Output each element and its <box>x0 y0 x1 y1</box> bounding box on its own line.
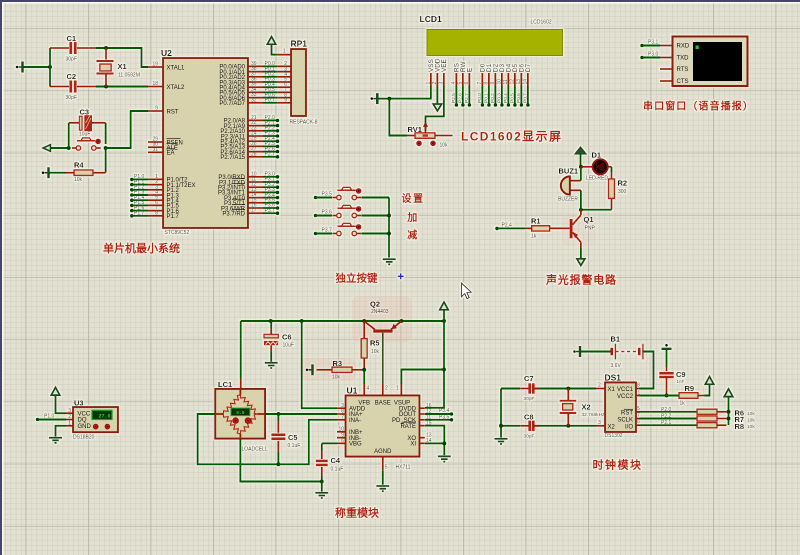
wire gnd to battery <box>580 351 611 353</box>
wire VSS to ground <box>389 86 431 99</box>
ground terminal (arrow) Q1 emitter <box>577 259 585 266</box>
capacitor C8 30pF <box>501 421 540 432</box>
svg-text:EA: EA <box>167 151 175 157</box>
svg-text:CTS: CTS <box>677 79 689 85</box>
pin 28 P2.7/A15 + net P2.7 <box>248 155 279 159</box>
ground GND-C4 <box>315 493 328 498</box>
wire C2 to XTAL2 <box>96 86 148 88</box>
svg-text:P2.1: P2.1 <box>661 420 672 426</box>
svg-text:11: 11 <box>503 79 509 84</box>
pin 3 X2 stub <box>596 420 605 426</box>
wire LC1 bottom pin to C4 gnd node <box>240 439 321 482</box>
svg-text:减: 减 <box>407 229 417 242</box>
svg-text:P3.6: P3.6 <box>322 210 333 216</box>
svg-text:10k: 10k <box>371 349 380 355</box>
wire+net P0.5 under LCD pin D5 <box>510 86 517 107</box>
svg-text:VBG: VBG <box>349 442 362 448</box>
svg-text:P0.1: P0.1 <box>484 93 490 103</box>
pin 26 P2.5/A13 + net P2.5 <box>248 145 279 149</box>
svg-text:30pF: 30pF <box>524 396 535 402</box>
wire AVDD from rail <box>302 321 337 408</box>
wire gnd stub <box>377 98 389 100</box>
svg-text:R4: R4 <box>74 161 84 170</box>
wire+net P0.6 under LCD pin D6 <box>516 86 523 107</box>
svg-text:RP1: RP1 <box>291 39 308 49</box>
svg-text:32.768kHz: 32.768kHz <box>582 412 606 418</box>
svg-text:P2.7: P2.7 <box>265 152 276 158</box>
wire+net P3.7 to button 3 <box>314 228 332 236</box>
wire GND pin to ground <box>56 426 67 437</box>
pin 10 D3 of LCD1 <box>497 63 506 86</box>
pin 5 RW of LCD1 <box>458 61 467 86</box>
node R7 pullup <box>727 417 731 421</box>
pin 8 P1.7 + net P1.7 <box>130 214 163 218</box>
ground GND-C7C8 <box>495 439 508 444</box>
svg-text:DQ: DQ <box>78 418 87 424</box>
node reset right <box>104 146 108 150</box>
svg-text:10k: 10k <box>440 143 449 149</box>
capacitor C2 <box>50 81 96 93</box>
svg-text:HX711: HX711 <box>396 465 411 471</box>
pushbutton KEY1 (P3.5) <box>332 187 361 200</box>
resistor R2 300 <box>609 173 615 210</box>
resistor R8 10k <box>697 423 727 428</box>
svg-text:3: 3 <box>598 420 601 426</box>
svg-text:300: 300 <box>618 189 627 195</box>
svg-text:C2: C2 <box>67 72 77 81</box>
svg-text:P0.7/AD7: P0.7/AD7 <box>219 101 245 107</box>
node LCD gnd junction <box>387 97 391 101</box>
pin 1 VCC2 stub + wire to R9 <box>636 390 679 396</box>
pin RXD of terminal <box>660 44 690 50</box>
pin 34 P0.5/AD5 + net P0.5 wire to RP1 <box>248 91 291 93</box>
node bus-b3 <box>387 232 391 236</box>
svg-text:C3: C3 <box>80 108 90 117</box>
svg-text:9: 9 <box>490 82 496 85</box>
transistor Q1 PNP <box>570 210 581 248</box>
svg-text:10k: 10k <box>74 177 83 183</box>
svg-text:P0.7: P0.7 <box>265 98 276 104</box>
svg-text:R8: R8 <box>735 422 745 431</box>
wire+net P0.7 under LCD pin D7 <box>523 86 530 107</box>
svg-text:9: 9 <box>284 98 287 104</box>
svg-text:P3.1: P3.1 <box>648 40 659 46</box>
wire AVDD rail <box>241 320 444 322</box>
resistor R6 10k <box>697 409 727 414</box>
pin 15 P3.5/T1 + net P3.5 <box>248 201 279 205</box>
wire C1-C2 left vertical <box>49 48 51 87</box>
svg-text:VCC2: VCC2 <box>617 394 634 400</box>
svg-text:P1.7: P1.7 <box>134 211 145 217</box>
load cell LC1 LOADCELL <box>215 379 265 439</box>
svg-text:2N4403: 2N4403 <box>371 309 389 315</box>
pin 11 PD_SCK of U1 <box>392 415 431 425</box>
svg-text:32: 32 <box>251 97 257 103</box>
svg-text:31: 31 <box>152 147 158 153</box>
svg-text:E: E <box>467 68 474 72</box>
node X1 bottom <box>104 85 108 89</box>
pin 8 VCC1 stub <box>636 383 640 389</box>
svg-text:1: 1 <box>426 82 432 85</box>
svg-text:DS18B20: DS18B20 <box>73 435 95 441</box>
svg-text:C9: C9 <box>676 370 686 379</box>
capacitor C3 10uF <box>69 115 106 149</box>
svg-text:P0.0: P0.0 <box>477 93 483 103</box>
pin 7 INA- of U1 <box>337 415 361 425</box>
resistor R9 1k <box>679 393 705 399</box>
input terminal arrow (reset net) <box>43 145 51 152</box>
wire C4 junction to ground <box>321 482 323 492</box>
wire VSUP branch <box>401 370 444 385</box>
svg-text:LCD1: LCD1 <box>420 14 442 24</box>
pushbutton KEY3 (P3.7) <box>332 223 361 236</box>
ground GND-AGND <box>376 486 389 491</box>
power VCC arrow RP1 <box>267 37 276 45</box>
pin 10 P3.0/RXD + net P3.0 <box>248 175 279 179</box>
svg-text:P3.0: P3.0 <box>648 52 659 58</box>
svg-text:称重模块: 称重模块 <box>335 506 380 520</box>
pin 22 P2.1/A9 + net P2.1 <box>248 124 279 128</box>
wire+net P0.1 under LCD pin D1 <box>484 86 491 107</box>
svg-text:10k: 10k <box>747 411 755 417</box>
svg-text:DS1: DS1 <box>605 373 622 383</box>
wire LC1 left pin loop to INA- <box>198 414 279 464</box>
pushbutton KEY2 (P3.6) <box>332 205 361 218</box>
svg-text:RST: RST <box>167 109 179 115</box>
pin 12 DOUT of U1 <box>399 409 432 419</box>
svg-text:DS1302: DS1302 <box>605 433 623 439</box>
pin 13 D6 of LCD1 <box>516 63 525 86</box>
ground GND-B1 <box>579 346 582 357</box>
svg-text:2: 2 <box>432 82 438 85</box>
selection glow Q1 <box>562 214 596 246</box>
svg-text:P2.2: P2.2 <box>661 414 672 420</box>
pin 5 AGND stub + ground <box>383 457 388 471</box>
pin 25 P2.4/A12 + net P2.4 <box>248 139 279 143</box>
power VCC arrow weighing <box>440 302 449 310</box>
wire VEE to RV1 wiper <box>426 86 444 131</box>
svg-text:10k: 10k <box>747 418 755 424</box>
svg-text:6: 6 <box>341 438 344 444</box>
pin 1 VSS of LCD1 <box>426 59 435 86</box>
svg-text:XTAL1: XTAL1 <box>167 65 186 71</box>
power VCC arrow U3 <box>51 387 60 395</box>
pin 37 P0.2/AD2 + net P0.2 wire to RP1 <box>248 76 291 78</box>
wire+net P3.0 to terminal TXD <box>640 52 660 60</box>
wire rail to LC1 top <box>240 321 242 379</box>
pin 7 D0 of LCD1 <box>477 63 486 86</box>
pin 3 VEE of LCD1 <box>439 59 448 86</box>
pin 5 P1.4 + net P1.4 <box>130 198 163 202</box>
capacitor C6 10uF (electrolytic) <box>264 321 278 362</box>
pin 7 P1.6 + net P1.6 <box>130 209 163 213</box>
capacitor C7 30pF <box>501 383 540 394</box>
selection glow Q2 <box>352 296 412 342</box>
svg-text:1k: 1k <box>680 401 686 407</box>
pin 2 VDD of LCD1 <box>432 58 441 86</box>
svg-text:P2.4: P2.4 <box>502 222 513 228</box>
svg-text:P3.7: P3.7 <box>265 208 276 214</box>
pin 14 P3.4/T0 + net P3.4 <box>248 196 279 200</box>
svg-text:RESPACK-8: RESPACK-8 <box>290 120 318 126</box>
svg-text:SCLK: SCLK <box>617 417 633 423</box>
node C4 bottom junction <box>320 480 324 484</box>
svg-text:1nF: 1nF <box>677 379 685 384</box>
wire button 1 to bus <box>362 197 390 199</box>
svg-text:LCD1602显示屏: LCD1602显示屏 <box>461 130 562 144</box>
op-amp U2 STC89C52 chip body <box>163 58 248 228</box>
wire LC1 right pin to INA+ <box>265 413 337 415</box>
pin 29 PSEN stub <box>148 141 163 143</box>
svg-text:14: 14 <box>523 79 529 85</box>
svg-text:7: 7 <box>341 415 344 421</box>
svg-text:28: 28 <box>251 151 257 157</box>
node alarm top junction <box>579 165 583 169</box>
svg-text:5: 5 <box>385 465 388 471</box>
node bus-b2 <box>387 214 391 218</box>
svg-text:1: 1 <box>396 386 399 392</box>
svg-text:19: 19 <box>152 62 158 68</box>
blue edit cursor <box>398 273 404 279</box>
capacitor C9 1nF <box>659 349 674 396</box>
pin 3 VCC of U3 <box>66 408 91 418</box>
resistor R3 10k <box>317 367 365 372</box>
pin 5 + wire net P2.0 to R6 <box>636 406 697 413</box>
svg-text:30pF: 30pF <box>524 434 535 440</box>
svg-text:STC89C52: STC89C52 <box>165 230 190 236</box>
node rail-R5/collector <box>362 319 366 323</box>
pin 6 E of LCD1 <box>464 68 473 86</box>
node RATE/XI <box>442 441 446 445</box>
wire power to VCC pin <box>56 395 67 413</box>
svg-text:3: 3 <box>439 82 445 85</box>
svg-text:C1: C1 <box>67 34 77 43</box>
wire VDD to power-down arrow <box>436 86 438 104</box>
svg-text:RTS: RTS <box>677 67 689 73</box>
resistor R4 10k <box>50 148 106 176</box>
svg-text:C5: C5 <box>288 433 298 442</box>
pin 4 P1.3 + net P1.3 <box>130 193 163 197</box>
wire gnd junction down to RV1 <box>389 99 407 136</box>
node rail-power <box>442 319 446 323</box>
wire AGND to ground <box>382 470 384 485</box>
pin 14 XI of U1 <box>410 438 431 448</box>
svg-text:LCD1602: LCD1602 <box>531 20 552 26</box>
wire terminal to button <box>51 147 69 149</box>
svg-text:BASE: BASE <box>375 401 391 407</box>
svg-text:10uF: 10uF <box>283 343 294 349</box>
wire X1 row <box>533 388 596 390</box>
svg-text:RV1: RV1 <box>408 125 422 134</box>
wire+net P3.4 DOUT <box>425 408 454 416</box>
svg-text:P3.7/RD: P3.7/RD <box>222 212 245 218</box>
svg-text:0.1uF: 0.1uF <box>331 467 344 473</box>
svg-text:C4: C4 <box>331 456 341 465</box>
svg-text:3: 3 <box>68 408 71 414</box>
svg-text:加: 加 <box>406 211 417 224</box>
pin 14 D7 of LCD1 <box>523 63 532 86</box>
svg-text:X1: X1 <box>608 387 616 393</box>
svg-text:C8: C8 <box>524 413 534 422</box>
pin 8 D1 of LCD1 <box>484 63 493 86</box>
svg-text:声光报警电路: 声光报警电路 <box>545 273 617 287</box>
svg-text:P1.7: P1.7 <box>167 214 180 220</box>
capacitor C5 0.1uF <box>271 414 285 464</box>
power terminal (alarm) <box>575 147 586 154</box>
wire VBG elbow <box>322 442 337 444</box>
ground GND-LCD <box>376 93 379 104</box>
svg-text:10k: 10k <box>332 375 341 381</box>
svg-text:C6: C6 <box>282 333 292 342</box>
svg-text:P2.7: P2.7 <box>464 93 470 103</box>
svg-text:VCC1: VCC1 <box>617 387 634 393</box>
wire+net P3.6 to button 2 <box>314 210 332 218</box>
node VCC2 junction <box>665 394 669 398</box>
power terminal (down) VDD <box>433 104 442 111</box>
pin 30 ALE stub <box>148 146 163 148</box>
svg-text:Q2: Q2 <box>370 300 380 309</box>
node rail-emitter <box>399 319 403 323</box>
pin 11 P3.1/TXD + net P3.1 <box>248 180 279 184</box>
pin 3 AVDD of U1 <box>337 403 366 413</box>
node reset left <box>67 146 71 150</box>
pin 33 P0.6/AD6 + net P0.6 wire to RP1 <box>248 97 291 99</box>
svg-text:30pF: 30pF <box>66 95 77 101</box>
wire+net P2.6 under LCD pin RW <box>458 86 465 107</box>
svg-text:P2.0: P2.0 <box>661 407 672 413</box>
ground GND-R4 <box>47 167 50 178</box>
svg-text:C7: C7 <box>524 374 534 383</box>
pin 15 RATE of U1 <box>400 420 431 430</box>
svg-text:8: 8 <box>155 210 158 216</box>
pin 2 P1.1/T2EX + net P1.1 <box>130 183 163 187</box>
wire+net P0.4 under LCD pin D4 <box>503 86 510 107</box>
svg-text:2: 2 <box>598 383 601 389</box>
svg-text:1k: 1k <box>531 234 537 240</box>
node rail-AVDD <box>300 319 304 323</box>
svg-text:2: 2 <box>68 414 71 420</box>
LCD display LCD1 <box>427 30 563 56</box>
svg-text:4: 4 <box>367 386 370 392</box>
pin 10 INB+ of U1 <box>337 427 363 437</box>
svg-text:独立按键: 独立按键 <box>335 272 378 285</box>
svg-text:单片机最小系统: 单片机最小系统 <box>103 241 180 255</box>
svg-text:U1: U1 <box>347 386 358 396</box>
pin 24 P2.3/A11 + net P2.3 <box>248 134 279 138</box>
pin 1 GND of U3 <box>66 421 92 431</box>
ground GND-U3 <box>49 438 62 443</box>
svg-text:LC1: LC1 <box>218 380 232 389</box>
svg-text:9: 9 <box>155 106 158 112</box>
mouse cursor <box>462 283 472 299</box>
LED D1 LED-RED <box>581 159 612 174</box>
svg-text:R1: R1 <box>531 217 541 226</box>
wire pullup vertical to power <box>728 397 730 426</box>
node rail-C6 <box>269 319 273 323</box>
svg-text:0.0: 0.0 <box>236 410 245 416</box>
pin 21 P2.0/A8 + net P2.0 <box>248 119 279 123</box>
pin 1 P1.0/T2 + net P1.0 <box>130 178 163 182</box>
wire battery to VCC1 <box>640 352 654 389</box>
svg-text:P3.4: P3.4 <box>439 408 450 414</box>
svg-text:U2: U2 <box>161 48 172 58</box>
svg-text:D7: D7 <box>525 63 532 72</box>
wire R9 to power <box>705 384 710 395</box>
resistor R1 1k <box>525 226 570 231</box>
pin CTS of terminal <box>660 79 689 85</box>
wire X2 row <box>533 425 596 427</box>
svg-text:D1: D1 <box>592 151 602 160</box>
pin 9 D2 of LCD1 <box>490 63 499 86</box>
svg-text:U3: U3 <box>74 399 84 408</box>
pin 6 + wire net P2.1 to R8 <box>636 419 697 426</box>
svg-text:X2: X2 <box>582 403 591 412</box>
pin 16 P3.6/WR + net P3.6 <box>248 206 279 210</box>
svg-text:3.6V: 3.6V <box>611 363 622 369</box>
wire+net P2.7 under LCD pin E <box>464 86 471 107</box>
wire power to LED junction <box>580 154 582 166</box>
svg-text:4: 4 <box>451 82 457 85</box>
svg-text:GND: GND <box>78 424 92 430</box>
svg-text:P0.7: P0.7 <box>523 93 529 103</box>
pin 23 P2.2/A10 + net P2.2 <box>248 129 279 133</box>
pin TXD of terminal <box>660 56 689 62</box>
pin 4 RS of LCD1 <box>451 63 460 86</box>
svg-text:XTAL2: XTAL2 <box>167 85 186 91</box>
svg-text:P0.4: P0.4 <box>503 93 509 103</box>
wire XI to vertical <box>425 442 445 444</box>
wire+net P0.3 under LCD pin D3 <box>497 86 504 107</box>
capacitor C4 0.1uF <box>316 443 328 481</box>
svg-text:I/O: I/O <box>625 425 633 431</box>
svg-text:P0.5: P0.5 <box>510 93 516 103</box>
op-amp U1 HX711 chip body <box>346 395 420 456</box>
resistor R5 10k <box>361 321 367 370</box>
pin 6 P1.5 + net P1.5 <box>130 204 163 208</box>
node C5 top <box>276 412 280 416</box>
svg-text:10uF: 10uF <box>79 132 90 138</box>
svg-text:13: 13 <box>516 79 522 85</box>
ground terminal above C9 <box>662 348 672 350</box>
svg-text:6: 6 <box>464 82 470 85</box>
pin 9 RST stub <box>148 110 163 112</box>
wire buzzer bottom to collector junction <box>580 190 582 209</box>
node C5 bottom <box>276 462 280 466</box>
svg-text:R9: R9 <box>685 384 695 393</box>
svg-text:VEE: VEE <box>441 59 448 72</box>
svg-text:P3.5: P3.5 <box>322 192 333 198</box>
svg-text:10k: 10k <box>747 424 755 430</box>
wire power to RP1 pin1 <box>272 44 278 54</box>
wire RATE/XI to ground <box>425 426 445 456</box>
wire+net P3.1 to terminal RXD <box>640 40 660 48</box>
clock chip DS1 DS1302 body <box>605 382 636 432</box>
pin 2 DQ of U3 <box>66 414 87 424</box>
svg-text:INA-: INA- <box>349 418 361 424</box>
capacitor C1 <box>50 42 96 54</box>
svg-text:R5: R5 <box>370 339 380 348</box>
pin 6 VBG of U1 <box>337 438 362 448</box>
pin 36 P0.3/AD3 + net P0.3 wire to RP1 <box>248 81 291 83</box>
svg-text:RXD: RXD <box>677 44 690 50</box>
svg-text:时钟模块: 时钟模块 <box>593 458 643 472</box>
pin 16 DVDD of U1 <box>399 403 432 413</box>
DS1 pin names inside <box>608 387 634 431</box>
node C8 left <box>499 424 503 428</box>
wire buzzer top to junction <box>580 167 582 181</box>
wire R2 bottom to collector junction <box>581 209 612 211</box>
wire to RST pin <box>106 111 148 148</box>
